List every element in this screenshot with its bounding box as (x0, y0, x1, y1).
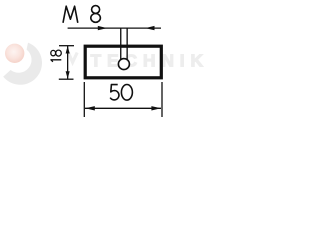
top dimension line (68, 27, 161, 29)
watermark logo swoosh (3, 43, 42, 85)
50 extension line right (161, 82, 163, 117)
50 left arrowhead (85, 106, 95, 110)
thread line left (120, 28, 122, 61)
watermark logo ball (5, 44, 24, 63)
thread line right (126, 28, 128, 61)
plate rectangle (85, 46, 161, 78)
18 dimension line (67, 46, 69, 79)
hole circle (118, 59, 129, 70)
50 extension line left (83, 82, 85, 117)
watermark text TECHNIK (68, 53, 77, 63)
top right arrowhead (145, 26, 154, 30)
svg-text:TECHNIK: TECHNIK (91, 51, 209, 71)
18 down arrowhead (66, 71, 70, 79)
18 up arrowhead (66, 46, 70, 54)
50 text (110, 85, 132, 101)
50 dimension line (85, 107, 161, 109)
label M 8 (63, 6, 100, 23)
18 dimension extension tick top (59, 45, 74, 47)
top left arrowhead (98, 26, 108, 30)
50 right arrowhead (151, 106, 161, 110)
18 dimension extension tick bottom (59, 78, 74, 80)
18 text (rotated) (51, 50, 62, 62)
